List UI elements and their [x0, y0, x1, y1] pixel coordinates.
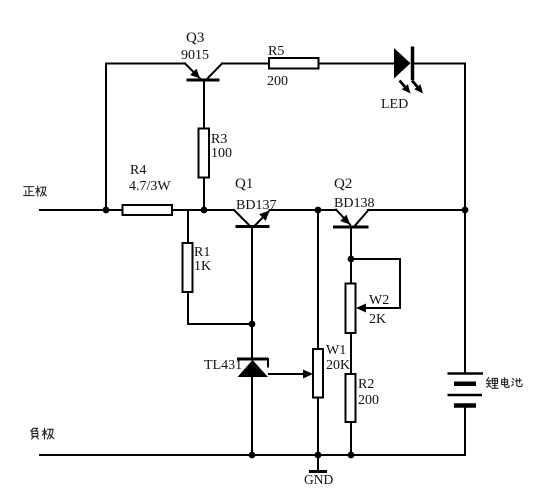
wire Q2 collector lead — [350, 229, 352, 284]
svg-text:20K: 20K — [326, 358, 350, 373]
shunt regulator U1 TL431 — [204, 358, 268, 377]
svg-text:W2: W2 — [369, 293, 389, 308]
svg-text:R3: R3 — [211, 132, 227, 147]
svg-text:R4: R4 — [130, 163, 146, 178]
svg-text:Q2: Q2 — [334, 176, 352, 192]
wire TL431 anode to bottom rail — [251, 377, 253, 455]
potentiometer W2 — [346, 284, 356, 334]
node TL431 anode / bottom rail — [249, 452, 256, 459]
wire W2 wiper loop — [351, 259, 400, 308]
node R2 / bottom rail — [348, 452, 355, 459]
svg-text:200: 200 — [267, 74, 288, 89]
svg-text:TL431: TL431 — [204, 358, 242, 373]
wire R2 to bottom rail — [350, 422, 352, 455]
wire GND stub — [317, 455, 319, 471]
resistor R3 — [199, 129, 210, 178]
wire R1 top lead — [187, 210, 189, 243]
wire main rail right of Q2 — [368, 209, 465, 211]
wire Q1 base down to TL431 — [251, 228, 253, 359]
svg-text:9015: 9015 — [181, 48, 209, 63]
LED D1 — [381, 47, 423, 113]
node R3 / main rail — [201, 207, 208, 214]
wire main rail between Q1 and Q2 — [270, 209, 337, 211]
transistor Q1 (NPN BD137) — [234, 176, 276, 227]
node W1 / bottom rail / GND — [315, 452, 322, 459]
ground GND — [304, 472, 333, 488]
svg-text:4.7/3W: 4.7/3W — [129, 179, 171, 194]
resistor R1 — [183, 243, 193, 292]
wire R3 to main rail — [203, 178, 205, 211]
svg-text:BD138: BD138 — [334, 196, 374, 211]
label 负极 — [31, 428, 54, 439]
resistor R4 — [123, 205, 173, 215]
wire right vertical rail upper — [464, 64, 466, 373]
wire R1 bottom to node A — [188, 292, 252, 324]
wire LED to top-right corner — [413, 63, 466, 65]
svg-text:GND: GND — [304, 472, 333, 487]
battery BT1 (锂电池) — [448, 374, 484, 406]
transistor Q2 (PNP BD138) — [333, 176, 374, 227]
resistor R5 — [269, 58, 319, 69]
wire main rail left (正极 input) — [40, 209, 234, 211]
wire left vertical rail — [105, 64, 107, 211]
svg-text:R2: R2 — [358, 377, 374, 392]
resistor R2 — [346, 374, 356, 422]
label 锂电池 — [486, 377, 522, 388]
svg-text:2K: 2K — [369, 312, 386, 327]
svg-text:LED: LED — [381, 97, 408, 112]
W2 wiper arrow — [356, 304, 366, 313]
transistor Q3 (PNP 9015) — [181, 30, 222, 90]
node Q2 collector / W2 loop — [348, 256, 355, 263]
svg-text:1K: 1K — [194, 259, 211, 274]
wire Q3 base to R3 — [203, 80, 205, 129]
wire TL431 reference to W1 wiper — [269, 373, 305, 375]
wire R5 to LED — [319, 63, 395, 65]
svg-text:BD137: BD137 — [236, 198, 276, 213]
potentiometer W1 — [313, 349, 323, 398]
label 正极 — [23, 186, 46, 196]
svg-text:200: 200 — [358, 393, 379, 408]
node main rail / right rail — [462, 207, 469, 214]
svg-text:Q1: Q1 — [235, 176, 253, 192]
wire W1 branch lower — [317, 398, 319, 456]
wire top-left horizontal — [106, 63, 185, 65]
wire W1 branch upper — [317, 210, 319, 349]
svg-text:Q3: Q3 — [186, 30, 204, 46]
wire W2 to R2 — [350, 333, 352, 374]
svg-text:100: 100 — [211, 146, 232, 161]
wire bottom rail (负极) — [40, 454, 465, 456]
node R1 / Q1 base — [249, 321, 256, 328]
svg-text:R1: R1 — [194, 245, 210, 260]
svg-text:W1: W1 — [326, 343, 346, 358]
wire Q3 to R5 — [222, 63, 269, 65]
node W1 branch / main rail — [315, 207, 322, 214]
wire right vertical rail lower — [464, 407, 466, 456]
svg-text:R5: R5 — [268, 44, 284, 59]
node left rail / main rail — [103, 207, 110, 214]
